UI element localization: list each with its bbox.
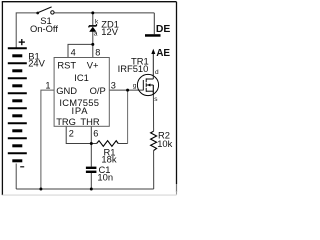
wire: R1 left stub <box>91 143 96 145</box>
svg-text:IRF510: IRF510 <box>118 63 149 74</box>
svg-text:4: 4 <box>71 48 76 58</box>
AE arrow head <box>151 49 155 54</box>
wire: pin1 GND to bottom rail <box>41 90 54 189</box>
wire: switch to DE corner (top rail) <box>54 12 154 14</box>
node: C1 / bottom rail junction <box>90 188 93 191</box>
svg-text:6: 6 <box>93 129 98 139</box>
border frame <box>2 1 177 3</box>
wire: node to C1 top <box>90 144 92 167</box>
drain stub <box>146 78 153 80</box>
battery minus sign <box>20 166 24 168</box>
node: TRG/THR/R1/C1 junction <box>90 142 93 145</box>
svg-text:d: d <box>155 69 159 76</box>
wire: pin2 TRG down and right <box>66 126 91 143</box>
svg-text:V+: V+ <box>87 60 99 71</box>
wire: pin3 O/P to gate <box>109 89 143 91</box>
svg-text:3: 3 <box>111 80 116 90</box>
svg-text:AE: AE <box>156 48 170 59</box>
resistor R2 <box>151 131 157 150</box>
svg-text:IC1: IC1 <box>74 72 89 83</box>
svg-text:10k: 10k <box>157 138 172 149</box>
wire: feedback column (O/P to R1 right) <box>127 90 129 143</box>
wire: pin4 tie to pin8 column <box>68 44 93 57</box>
wire: DE drop <box>153 13 155 34</box>
body stub <box>146 84 153 86</box>
resistor R1 <box>97 141 119 147</box>
capacitor C1 <box>86 167 97 169</box>
zener diode ZD1 <box>89 24 97 27</box>
svg-text:On-Off: On-Off <box>30 23 58 34</box>
gate plate <box>142 80 144 90</box>
wire: battery bottom to rail <box>15 164 17 190</box>
wire: pin6 THR down <box>90 126 92 143</box>
svg-text:10n: 10n <box>97 172 113 183</box>
svg-text:24V: 24V <box>28 58 45 69</box>
wire: R1 right stub up to O/P node <box>118 143 127 145</box>
battery B1 <box>8 48 27 161</box>
transistor TR1 (MOSFET) <box>137 74 158 95</box>
svg-text:8: 8 <box>95 48 100 58</box>
drain lead <box>152 52 154 80</box>
IC1 box <box>54 58 109 127</box>
wire: battery top to switch <box>16 13 36 48</box>
svg-text:g: g <box>133 82 137 89</box>
svg-text:DE: DE <box>156 24 171 35</box>
source stub <box>146 90 153 92</box>
node: GND / bottom rail junction <box>39 188 42 191</box>
svg-text:IPA: IPA <box>72 105 89 116</box>
wire: bottom rail <box>16 188 154 190</box>
node: pin4 tie / zener column <box>91 43 94 46</box>
svg-text:RST: RST <box>57 60 76 71</box>
svg-text:2: 2 <box>69 129 74 139</box>
battery plus sign <box>19 39 25 45</box>
wire: C1 bottom to rail <box>90 173 92 189</box>
switch S1 <box>36 12 39 15</box>
channel segments <box>145 78 147 82</box>
svg-text:TRG: TRG <box>56 116 76 127</box>
DE electrode <box>145 34 161 37</box>
svg-text:GND: GND <box>56 85 77 96</box>
svg-text:12V: 12V <box>101 26 118 37</box>
node: O/P / gate / feedback junction <box>126 89 129 92</box>
wire: source column to R2 <box>152 94 154 131</box>
wire: zener column top <box>92 13 94 25</box>
svg-text:THR: THR <box>80 116 99 127</box>
body arrow <box>147 84 150 87</box>
source lead inside <box>152 85 154 94</box>
svg-text:a: a <box>94 30 98 37</box>
wire: R2 bottom to rail <box>153 151 155 190</box>
svg-text:O/P: O/P <box>90 85 106 96</box>
svg-text:18k: 18k <box>101 154 116 165</box>
wire: zener anode to pin8 <box>92 31 94 57</box>
node: top rail / zener junction <box>91 11 94 14</box>
svg-text:1: 1 <box>45 80 50 90</box>
